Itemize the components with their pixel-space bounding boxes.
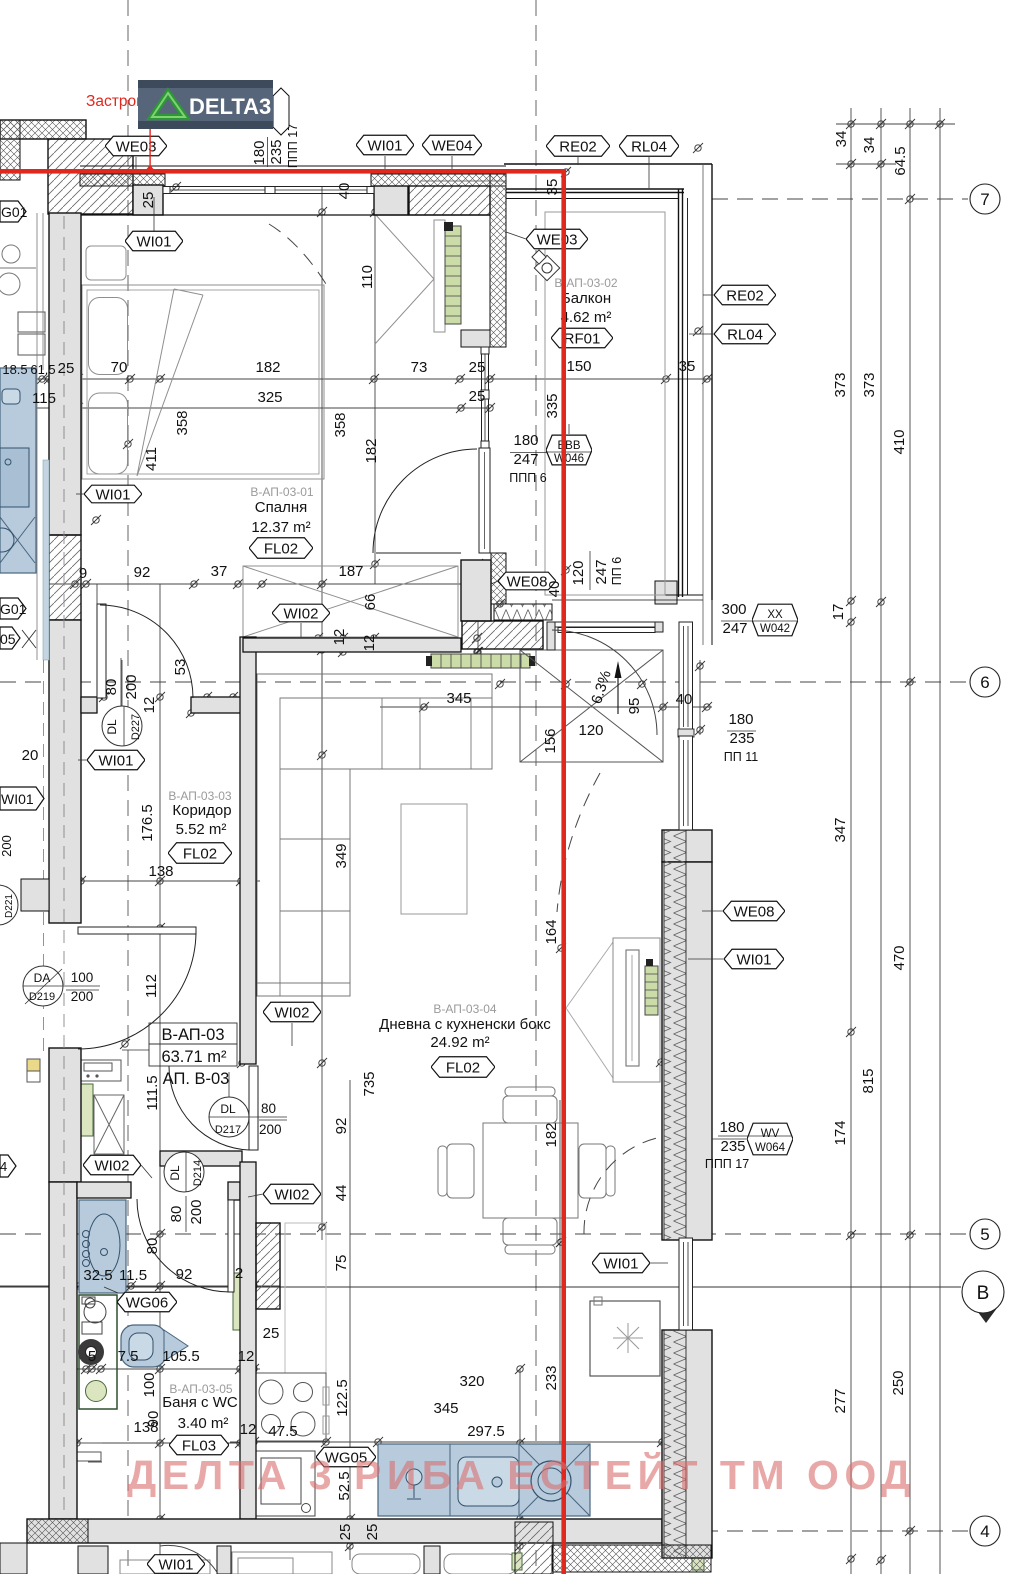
svg-text:WE03: WE03 bbox=[537, 232, 578, 249]
svg-text:92: 92 bbox=[333, 1118, 350, 1135]
door D227 leaf bbox=[97, 604, 106, 698]
right wall insulation zigzag bbox=[664, 830, 686, 1240]
svg-text:25: 25 bbox=[58, 360, 75, 377]
bath washing column bbox=[79, 1295, 117, 1409]
grid axis dashed vertical x=536 bbox=[535, 0, 537, 1574]
svg-text:235: 235 bbox=[729, 730, 754, 747]
hexagon tag WI02 corridor low bbox=[263, 1002, 321, 1022]
lower apartment bed partial bbox=[120, 1560, 210, 1574]
svg-text:05: 05 bbox=[0, 631, 16, 647]
svg-text:73: 73 bbox=[411, 359, 428, 376]
bath dim line y=1443 bbox=[60, 1442, 240, 1444]
door tag circle DA D219 bbox=[23, 966, 63, 1006]
kitchen top wall bbox=[160, 1151, 242, 1166]
window WE04 upper detail lines bbox=[420, 180, 506, 182]
door D227 swing arc bbox=[100, 605, 193, 698]
svg-text:12: 12 bbox=[361, 635, 378, 652]
svg-text:BBB: BBB bbox=[557, 440, 580, 452]
svg-text:64.5: 64.5 bbox=[892, 146, 909, 175]
svg-text:WI01: WI01 bbox=[367, 138, 402, 155]
partial hexagon 05 bbox=[0, 627, 20, 649]
logo DELTA3 bbox=[138, 80, 273, 129]
svg-text:Баня с WC: Баня с WC bbox=[162, 1394, 238, 1411]
svg-text:RL04: RL04 bbox=[727, 327, 763, 344]
partial hexagon G01 top bbox=[0, 201, 26, 222]
LAYER: logo and watermark bbox=[127, 80, 916, 1498]
svg-text:24.92 m²: 24.92 m² bbox=[430, 1034, 489, 1051]
dimension texts horizontal bbox=[2, 358, 758, 1440]
svg-text:235: 235 bbox=[268, 139, 285, 164]
svg-text:4: 4 bbox=[0, 1159, 7, 1174]
door tag circle D221 partial bbox=[0, 885, 18, 925]
svg-text:61.5: 61.5 bbox=[30, 362, 55, 377]
svg-text:44: 44 bbox=[333, 1185, 350, 1202]
svg-text:DA: DA bbox=[34, 971, 51, 985]
svg-text:112: 112 bbox=[143, 974, 160, 998]
svg-text:174: 174 bbox=[832, 1120, 849, 1145]
svg-text:3.40 m²: 3.40 m² bbox=[178, 1415, 229, 1432]
balcony sliding door panel A bbox=[555, 622, 655, 627]
svg-text:358: 358 bbox=[332, 412, 349, 437]
svg-text:176.5: 176.5 bbox=[139, 804, 156, 842]
bath sink cabinet bbox=[79, 1200, 126, 1293]
hexagon tag WG05 bbox=[316, 1447, 376, 1467]
svg-text:200: 200 bbox=[71, 989, 94, 1004]
svg-text:7.5: 7.5 bbox=[118, 1348, 139, 1365]
svg-text:Дневна с кухненски бокс: Дневна с кухненски бокс bbox=[379, 1016, 551, 1033]
balcony floor inner rect bbox=[545, 212, 665, 595]
column pillar bbox=[133, 185, 163, 215]
balcony sliding door jamb left bbox=[547, 622, 555, 650]
coffee table bbox=[401, 804, 467, 914]
door tag circle DL D214 bbox=[164, 1152, 204, 1192]
svg-text:470: 470 bbox=[891, 945, 908, 970]
grid axis 5 dashed horizontal bbox=[0, 1233, 968, 1235]
partial hexagon 04 bath bbox=[0, 1155, 16, 1177]
hexagon tag WE03 bbox=[105, 136, 167, 156]
balcony parapet top bbox=[506, 188, 684, 190]
door D214 swing arc bbox=[137, 1199, 231, 1292]
svg-text:WE08: WE08 bbox=[734, 904, 775, 921]
hexagon tag RL04 right bbox=[714, 324, 776, 344]
crosshatch strip at WE08 bbox=[491, 553, 506, 604]
neighbor stove circles bbox=[2, 245, 20, 263]
grid axis dashed vertical x=128 bbox=[127, 0, 129, 1574]
svg-text:63.71 m²: 63.71 m² bbox=[161, 1048, 227, 1066]
bath top wall stub bbox=[228, 1182, 240, 1200]
svg-text:RL04: RL04 bbox=[631, 139, 667, 156]
svg-text:180: 180 bbox=[719, 1119, 744, 1136]
window WI01 bedroom north frame lines bbox=[163, 186, 374, 188]
vertical dim line x=560 kitchen/table bbox=[559, 1100, 561, 1460]
svg-text:200: 200 bbox=[123, 674, 140, 699]
right wall pier bbox=[662, 830, 712, 862]
nightstand bbox=[86, 246, 126, 280]
radiator bedroom east bbox=[444, 222, 461, 324]
ramp slope arrow bbox=[617, 676, 619, 714]
hexagon tag WI01 west bbox=[84, 485, 142, 503]
svg-text:235: 235 bbox=[720, 1138, 745, 1155]
svg-text:WE04: WE04 bbox=[432, 138, 473, 155]
svg-text:RE02: RE02 bbox=[559, 139, 597, 156]
balcony parapet right bbox=[678, 189, 680, 597]
svg-text:11.5: 11.5 bbox=[119, 1267, 147, 1284]
neighbor party wall lines bbox=[36, 213, 38, 660]
hexagon tag WE08 east bbox=[723, 901, 785, 921]
svg-text:35: 35 bbox=[544, 179, 561, 196]
door D219 swing arc bbox=[78, 933, 196, 1049]
hexagon tag WI02 kitchen bbox=[263, 1184, 321, 1204]
corridor top wall stub left bbox=[81, 697, 97, 713]
electric boxes yellow bbox=[27, 1059, 40, 1071]
svg-text:410: 410 bbox=[891, 429, 908, 454]
kitchen corner unit bbox=[519, 1444, 590, 1516]
svg-text:187: 187 bbox=[338, 563, 363, 580]
chair bottom bbox=[503, 1218, 557, 1245]
window mullion pier bbox=[678, 729, 694, 737]
wardrobe south wall band bbox=[243, 638, 461, 652]
svg-text:WI01: WI01 bbox=[95, 487, 130, 504]
tech box corridor bbox=[80, 1060, 121, 1081]
svg-text:345: 345 bbox=[446, 690, 471, 707]
corridor-living partition wall bbox=[240, 637, 256, 1064]
corridor dim line y=881 bbox=[49, 880, 260, 882]
svg-text:W046: W046 bbox=[554, 453, 584, 465]
toilet bbox=[121, 1325, 166, 1367]
misc ticks bbox=[123, 439, 133, 449]
door tag circle DL D217 bbox=[209, 1097, 249, 1137]
neighbor stairwell step block bbox=[21, 879, 49, 911]
svg-text:DL: DL bbox=[220, 1102, 236, 1116]
svg-text:DL: DL bbox=[168, 1165, 182, 1181]
svg-text:17: 17 bbox=[830, 604, 847, 621]
svg-text:RE02: RE02 bbox=[726, 288, 764, 305]
hexagon tag FL02 living bbox=[431, 1057, 495, 1077]
neighbor kitchen counter bbox=[0, 368, 36, 573]
svg-text:ППП 17: ППП 17 bbox=[705, 1157, 749, 1171]
svg-text:182: 182 bbox=[543, 1122, 560, 1147]
partial hexagon G01 mid bbox=[0, 598, 26, 619]
wall left edge crosshatch strip bbox=[0, 120, 20, 180]
grid axis 4 dashed horizontal bbox=[27, 1530, 968, 1532]
svg-text:325: 325 bbox=[257, 389, 282, 406]
wine glass symbol bbox=[406, 1469, 422, 1499]
svg-text:D221: D221 bbox=[4, 894, 15, 918]
fridge bbox=[590, 1301, 660, 1376]
svg-text:25: 25 bbox=[140, 192, 157, 209]
neighbor wall center dashed bbox=[43, 660, 45, 1055]
svg-text:D214: D214 bbox=[192, 1160, 204, 1186]
svg-text:WI01: WI01 bbox=[98, 753, 133, 770]
left wall mid bbox=[49, 620, 81, 923]
dimension ticks right columns bbox=[846, 119, 856, 129]
dimension texts rotated bbox=[103, 124, 909, 1541]
bath left wall bbox=[49, 1182, 77, 1519]
hexagon tag WE03 balcony bbox=[526, 229, 588, 249]
svg-text:12: 12 bbox=[240, 1421, 257, 1438]
TV cabinet bbox=[613, 938, 660, 1082]
svg-text:95: 95 bbox=[626, 698, 643, 715]
chair left bbox=[447, 1144, 474, 1198]
svg-text:WV: WV bbox=[761, 1128, 780, 1140]
vertical dim line x=322 bedroom bbox=[321, 186, 323, 755]
right exterior wall lower bbox=[662, 1330, 712, 1558]
hexagon tag WG06 bbox=[117, 1292, 177, 1312]
dimension column line 1 x=851 bbox=[850, 108, 852, 1574]
svg-text:25: 25 bbox=[364, 1524, 381, 1541]
bedroom horizontal dimension line y=379 bbox=[0, 378, 712, 380]
grid axis B solid horizontal bbox=[0, 1286, 961, 1288]
svg-text:100: 100 bbox=[71, 970, 94, 985]
grid bubble 5 bbox=[970, 1219, 1000, 1249]
vertical dim line x=97 corridor bbox=[96, 584, 98, 713]
svg-text:358: 358 bbox=[174, 410, 191, 435]
neighbor cabinet bbox=[18, 312, 45, 332]
svg-text:12: 12 bbox=[141, 697, 158, 714]
svg-text:80: 80 bbox=[168, 1206, 185, 1223]
svg-text:2: 2 bbox=[235, 1265, 243, 1282]
svg-text:247: 247 bbox=[593, 559, 610, 584]
svg-text:7: 7 bbox=[980, 190, 989, 209]
svg-text:100: 100 bbox=[141, 1372, 158, 1397]
living east window W3 bbox=[679, 1238, 693, 1330]
bath dim line y=1369 bbox=[60, 1368, 260, 1370]
vertical dim line x=520 living bbox=[519, 1369, 521, 1560]
svg-text:34: 34 bbox=[833, 131, 850, 148]
svg-text:WI01: WI01 bbox=[736, 952, 771, 969]
bedroom horizontal dimension line y=408 bbox=[20, 407, 490, 409]
svg-text:W064: W064 bbox=[755, 1142, 786, 1154]
balcony bottom edge bbox=[545, 594, 703, 596]
bedroom outer sill line bbox=[80, 165, 506, 167]
bed blanket fold bbox=[137, 289, 203, 476]
svg-text:FL02: FL02 bbox=[183, 846, 217, 863]
hexagon tag FL02 bedroom bbox=[249, 538, 313, 558]
svg-text:D227: D227 bbox=[130, 714, 142, 740]
vertical dim line x=350 kitchen bbox=[349, 1080, 351, 1560]
svg-text:6: 6 bbox=[980, 673, 989, 692]
partial hexagon WI01 left bbox=[0, 787, 44, 810]
svg-text:200: 200 bbox=[188, 1199, 205, 1224]
washing machine kitchen bbox=[254, 1451, 315, 1516]
grid bubble 6 bbox=[970, 667, 1000, 697]
left wall hatched segment bbox=[49, 535, 81, 620]
svg-text:25: 25 bbox=[337, 1524, 354, 1541]
shaft hatch wall bbox=[256, 1223, 280, 1309]
dimension column line 2 x=881 bbox=[880, 108, 882, 1574]
door D214 leaf bbox=[228, 1200, 234, 1292]
svg-text:ДЕЛТА 3 РИБА ЕСТЕЙТ ТМ ООД: ДЕЛТА 3 РИБА ЕСТЕЙТ ТМ ООД bbox=[127, 1452, 916, 1498]
svg-text:70: 70 bbox=[111, 359, 128, 376]
svg-text:FL02: FL02 bbox=[264, 541, 298, 558]
bottom strip hatch wall bbox=[515, 1522, 553, 1574]
red leader line bbox=[149, 108, 150, 169]
wardrobe end wall gray bbox=[461, 330, 490, 347]
svg-text:Коридор: Коридор bbox=[172, 802, 231, 819]
svg-text:247: 247 bbox=[513, 451, 538, 468]
svg-text:80: 80 bbox=[103, 679, 120, 696]
svg-text:277: 277 bbox=[832, 1388, 849, 1413]
bath accessories bbox=[66, 1443, 102, 1462]
svg-text:ППП 6: ППП 6 bbox=[509, 471, 546, 485]
hexagon tag RE02 bbox=[546, 136, 610, 156]
living room horizontal dim line y=707 bbox=[380, 706, 712, 708]
right exterior wall middle bbox=[662, 862, 712, 1240]
svg-text:40: 40 bbox=[336, 183, 353, 200]
svg-text:ПП 11: ПП 11 bbox=[724, 750, 758, 764]
LAYER: furniture bbox=[0, 214, 704, 1574]
svg-text:180: 180 bbox=[251, 140, 268, 165]
ramp outline bbox=[520, 650, 663, 762]
svg-text:12: 12 bbox=[238, 1348, 255, 1365]
grid axis 7 dashed horizontal bbox=[712, 198, 968, 200]
balcony corner block bbox=[655, 581, 677, 604]
grid bubble B with triangle bbox=[972, 1304, 1000, 1323]
svg-text:5: 5 bbox=[88, 1348, 96, 1365]
left exterior wall upper bbox=[49, 213, 81, 535]
hexagon tag WI02 wardrobe bbox=[272, 604, 330, 622]
door tag circle DL D227 bbox=[102, 706, 142, 746]
svg-text:335: 335 bbox=[544, 393, 561, 418]
hexagon tag WI01 top bbox=[356, 135, 414, 155]
svg-text:411: 411 bbox=[143, 447, 160, 471]
LAYER: red overlay bbox=[0, 93, 566, 1574]
svg-text:120: 120 bbox=[578, 722, 603, 739]
hexagon tag WI01 bedroom bbox=[125, 231, 183, 251]
svg-text:156: 156 bbox=[542, 728, 559, 753]
door D219 entrance leaf bbox=[78, 927, 196, 934]
dimension column line 3 x=910 bbox=[909, 108, 911, 1574]
left wall below entrance door bbox=[49, 1048, 81, 1182]
hexagon tag WI01 southeast bbox=[592, 1253, 650, 1273]
hexagon tag WI01 bottom bbox=[147, 1555, 205, 1574]
ramp door swing arc bbox=[552, 630, 657, 735]
door D217 swing arc bbox=[169, 1066, 249, 1150]
stove bbox=[254, 1373, 326, 1441]
svg-text:25: 25 bbox=[469, 388, 486, 405]
wall top-left neighbor crosshatch band bbox=[0, 120, 86, 139]
column pillar right bbox=[374, 186, 408, 215]
svg-text:WI02: WI02 bbox=[94, 1158, 129, 1175]
chair top bbox=[503, 1096, 557, 1123]
svg-text:12: 12 bbox=[331, 629, 348, 646]
svg-text:WI01: WI01 bbox=[1, 791, 34, 807]
svg-text:WI02: WI02 bbox=[274, 1005, 309, 1022]
apartment box leader bbox=[122, 1049, 149, 1051]
TV cabinet chevron bbox=[566, 942, 613, 1078]
wardrobe bottom with cross bbox=[243, 566, 458, 637]
window WE08 bedroom east frame bbox=[481, 347, 483, 448]
svg-text:182: 182 bbox=[255, 359, 280, 376]
svg-text:G01: G01 bbox=[1, 204, 28, 220]
balcony outer frame bbox=[504, 163, 712, 165]
red property boundary vertical bbox=[561, 169, 566, 1574]
svg-text:32.5: 32.5 bbox=[83, 1267, 112, 1284]
shaft with cross bbox=[94, 1095, 124, 1154]
hexagon tag WE04 bbox=[422, 135, 482, 155]
wall bedroom-balcony crosshatch strip bbox=[490, 174, 506, 347]
svg-text:66: 66 bbox=[362, 594, 379, 611]
kitchen counter blue bbox=[378, 1444, 590, 1516]
corridor center vertical dim x=322 lower bbox=[321, 640, 323, 1240]
bottom-right crosshatch wall band bbox=[552, 1545, 711, 1572]
svg-text:115: 115 bbox=[32, 390, 56, 407]
tick crossbars top bbox=[836, 123, 866, 125]
lower apartment wall stubs bbox=[78, 1546, 108, 1574]
vertical dim line x=478 living top bbox=[477, 560, 479, 660]
door D217 leaf bbox=[249, 1066, 258, 1150]
svg-text:182: 182 bbox=[363, 438, 380, 463]
bed outer bbox=[82, 285, 324, 479]
sofa L-shape bbox=[257, 674, 492, 996]
svg-text:40: 40 bbox=[676, 691, 693, 708]
svg-text:Балкон: Балкон bbox=[561, 290, 611, 307]
neighbor wall blue strip bbox=[43, 460, 49, 660]
svg-text:25: 25 bbox=[263, 1325, 280, 1342]
balcony sliding door jamb right bbox=[655, 622, 663, 632]
hexagon tag RE02 right bbox=[714, 285, 776, 305]
bath top wall bbox=[77, 1182, 131, 1198]
chair right bbox=[579, 1144, 606, 1198]
door bedroom-balcony leaf bbox=[479, 448, 490, 553]
svg-text:B: B bbox=[977, 1283, 990, 1304]
svg-text:RF01: RF01 bbox=[564, 331, 601, 348]
radiator living north bbox=[426, 654, 535, 668]
door bedroom-balcony swing arc bbox=[373, 449, 477, 553]
svg-text:75: 75 bbox=[333, 1255, 350, 1272]
svg-text:34: 34 bbox=[861, 137, 878, 154]
svg-text:FL02: FL02 bbox=[446, 1060, 480, 1077]
svg-text:В-АП-03-01: В-АП-03-01 bbox=[250, 485, 314, 499]
bath dim line y=1286 bbox=[0, 1285, 280, 1287]
hexagon tag RF01 bbox=[551, 328, 613, 348]
LAYER: walls bbox=[0, 120, 712, 1574]
svg-text:150: 150 bbox=[566, 358, 591, 375]
svg-text:35: 35 bbox=[679, 358, 696, 375]
dashed swing arc ramp lower bbox=[557, 773, 600, 912]
svg-text:WI02: WI02 bbox=[274, 1187, 309, 1204]
dashed swing arc bedroom window bbox=[269, 224, 326, 284]
svg-text:815: 815 bbox=[860, 1068, 877, 1093]
svg-text:XX: XX bbox=[767, 609, 783, 621]
svg-text:37: 37 bbox=[211, 563, 228, 580]
svg-text:111.5: 111.5 bbox=[144, 1075, 161, 1110]
right wall insulation zigzag lower bbox=[664, 1330, 686, 1558]
svg-text:250: 250 bbox=[890, 1370, 907, 1395]
svg-text:D217: D217 bbox=[215, 1124, 241, 1136]
svg-text:180: 180 bbox=[513, 432, 538, 449]
TV screen bbox=[626, 950, 639, 1066]
living east window W1 bbox=[679, 622, 693, 731]
dining table bbox=[483, 1123, 578, 1218]
hexagon tag FL03 bath bbox=[169, 1435, 229, 1455]
svg-text:В-АП-03: В-АП-03 bbox=[161, 1026, 224, 1044]
kitchen sink bbox=[458, 1457, 519, 1506]
rotated hexagon tag behind logo bbox=[273, 88, 289, 135]
LAYER: doors and windows bbox=[78, 181, 694, 1574]
green strip heater bbox=[81, 1084, 93, 1136]
svg-text:G01: G01 bbox=[0, 601, 27, 617]
fraction bars bbox=[510, 452, 589, 454]
svg-text:247: 247 bbox=[722, 620, 747, 637]
top wall crosshatch band right bbox=[371, 174, 506, 186]
svg-text:DL: DL bbox=[105, 719, 119, 735]
grid axis 6 dashed horizontal bbox=[0, 681, 968, 683]
svg-text:В-АП-03-04: В-АП-03-04 bbox=[433, 1002, 497, 1016]
svg-text:180: 180 bbox=[728, 711, 753, 728]
door threshold line bbox=[376, 552, 461, 554]
svg-text:92: 92 bbox=[134, 564, 151, 581]
